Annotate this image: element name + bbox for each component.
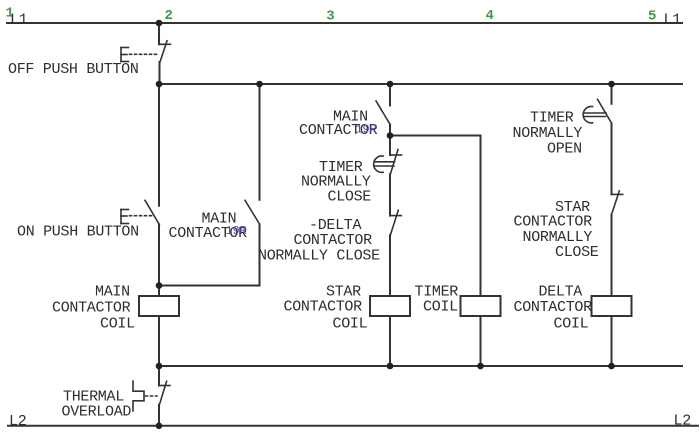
node rail1 col2 [156, 20, 163, 27]
node parallel join [156, 282, 163, 289]
svg-text:L2: L2 [674, 413, 691, 430]
thermal overload contact NC [159, 381, 170, 404]
svg-text:3: 3 [326, 9, 334, 25]
node col3 branch [387, 132, 394, 139]
delta contactor coil [592, 296, 632, 316]
thermal dashed link [146, 395, 158, 397]
svg-text:CONTACTOR: CONTACTOR [52, 300, 131, 317]
wire thermal-to-L2 [158, 405, 160, 426]
node midrail col2 [156, 363, 163, 370]
wire timercoil-to-midrail [480, 316, 482, 366]
wire off-to-rail2 [159, 62, 161, 84]
node rail2 col5 [608, 81, 615, 88]
actuator E on [121, 210, 153, 224]
svg-text:2: 2 [165, 8, 173, 24]
svg-text:4: 4 [486, 8, 494, 24]
wire coil-to-midrail [158, 316, 160, 366]
svg-text:19R: 19R [356, 122, 377, 136]
wire deltanc-to-starcoil [389, 235, 391, 296]
thermal overload heater symbol [133, 381, 144, 411]
node midrail col5 [608, 363, 615, 370]
svg-text:CLOSE: CLOSE [555, 244, 599, 261]
wire rail2-to-onpb [158, 84, 160, 206]
wire timernc-to-deltanc [389, 174, 391, 215]
wire starcoil-to-midrail [389, 316, 391, 366]
timer NO contact [598, 99, 612, 123]
wire col2 top [158, 23, 160, 44]
wire col3 top [389, 84, 391, 106]
svg-text:NORMALLY CLOSE: NORMALLY CLOSE [258, 248, 380, 265]
wire branch to timer coil horizontal [390, 135, 481, 137]
delta contactor NC contact [390, 210, 401, 235]
timer NO delay symbol [583, 107, 606, 123]
rail 2 [159, 83, 682, 85]
wire onpb-to-node [158, 225, 160, 286]
svg-text:L2: L2 [9, 413, 26, 430]
main contactor contact NO col3 [376, 101, 390, 125]
wire starnc-to-deltacoil [611, 215, 613, 296]
svg-text:L1: L1 [664, 12, 682, 29]
node midrail col3 [387, 363, 394, 370]
rail L2 bottom [8, 425, 698, 427]
svg-text:L1: L1 [10, 11, 28, 28]
node rail2 aux [256, 81, 263, 88]
wire timerno-to-starnc [611, 123, 613, 194]
svg-text:OFF PUSH BUTTON: OFF PUSH BUTTON [8, 61, 139, 78]
svg-text:MAIN: MAIN [95, 284, 130, 301]
timer NC delay symbol [374, 156, 395, 172]
actuator E off [121, 48, 158, 62]
off push button PB1 NC [159, 41, 171, 62]
svg-text:OPEN: OPEN [547, 140, 582, 157]
svg-text:COIL: COIL [100, 315, 135, 332]
node L2 col2 [156, 423, 163, 430]
svg-text:OVERLOAD: OVERLOAD [62, 404, 132, 421]
wire midrail-to-thermal [158, 366, 160, 386]
svg-text:ON PUSH BUTTON: ON PUSH BUTTON [17, 223, 139, 240]
wire deltacoil-to-midrail [611, 316, 613, 366]
svg-text:COIL: COIL [423, 299, 458, 316]
svg-text:NORMALLY: NORMALLY [513, 125, 583, 142]
rail mid [159, 365, 682, 367]
svg-text:CLOSE: CLOSE [328, 189, 372, 206]
star contactor NC contact [612, 191, 623, 215]
wire parallel branch horizontal [159, 285, 260, 287]
star contactor coil [370, 296, 410, 316]
node rail2 col2 [156, 81, 163, 88]
node midrail timer [477, 363, 484, 370]
timer NC contact [390, 150, 402, 175]
svg-text:COIL: COIL [554, 316, 589, 333]
wire node135-to-timernc [389, 136, 391, 156]
node rail2 col3 [387, 81, 394, 88]
on push button PB2 NO [145, 200, 159, 224]
timer coil [461, 296, 501, 316]
wire node-to-coil [158, 286, 160, 297]
rail L1 top [7, 22, 682, 24]
svg-text:5: 5 [648, 9, 656, 25]
wire aux branch top [259, 84, 261, 200]
wire aux branch bottom [259, 224, 261, 285]
main contactor coil [139, 296, 179, 316]
main contactor aux contact NO [245, 200, 260, 224]
wire col5 top [611, 84, 613, 104]
svg-text:CONTACTOR: CONTACTOR [514, 299, 593, 316]
svg-text:CONTACTOR: CONTACTOR [284, 299, 363, 316]
svg-text:COIL: COIL [333, 315, 368, 332]
wire timer coil branch vertical [480, 136, 482, 297]
svg-text:19R: 19R [226, 224, 247, 238]
wire contact-to-node135 [389, 125, 391, 136]
